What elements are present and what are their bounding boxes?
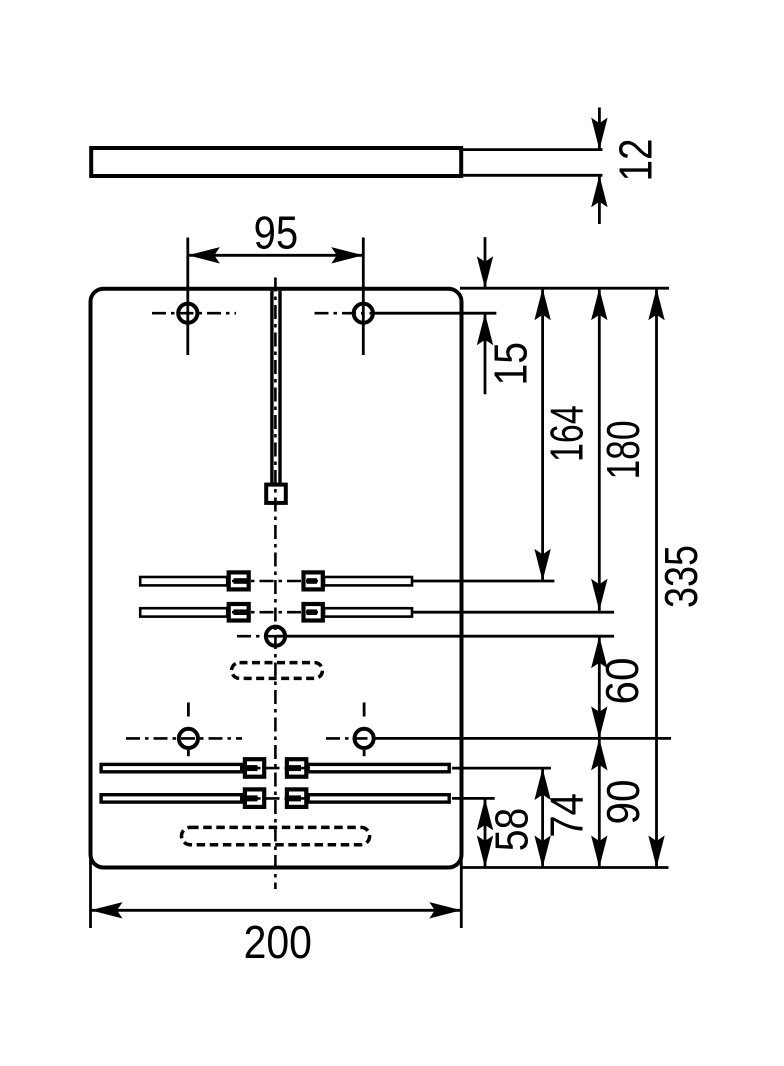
middle slot row1 centerline: [232, 580, 318, 583]
bottom slot row2 right square: [287, 789, 306, 807]
vertical keyhole slot left line: [270, 291, 273, 483]
lower hole right centerline: [326, 737, 376, 740]
side view thin profile top line: [461, 148, 603, 151]
dimension 180 top arrow: [591, 288, 607, 320]
dimension 90 top arrow: [591, 738, 607, 770]
dimension 95 right arrow: [331, 247, 363, 263]
bottom slot row2 left square: [245, 789, 264, 807]
bottom slot row1 left square inner mark: [240, 765, 258, 771]
dimension 60 line: [598, 636, 601, 738]
lower hole right top tick: [363, 703, 366, 717]
middle slot row1 right square: [304, 572, 323, 589]
dimension 335 top arrow: [648, 288, 664, 320]
middle circle centerline left: [237, 635, 276, 638]
middle slot row1 left square: [229, 572, 249, 589]
bottom slot row1 right square inner mark: [288, 765, 302, 771]
dimension 60 top arrow: [591, 636, 607, 668]
bottom slot row2 right square inner mark: [288, 795, 302, 801]
svg-text:90: 90: [599, 779, 650, 824]
bottom slot row2 left square inner mark: [240, 795, 258, 801]
dimension 200 right arrow: [429, 902, 461, 918]
dimension 58 bottom arrow: [477, 836, 493, 868]
svg-text:180: 180: [597, 420, 649, 479]
middle circle: [266, 627, 285, 646]
lower hole left bottom tick: [187, 750, 190, 756]
middle slot row1 right bar: [324, 577, 412, 585]
dimension 335 line: [655, 288, 658, 867]
top edge extension line: [460, 287, 669, 290]
svg-text:58: 58: [487, 808, 539, 851]
keyhole slot bottom square: [266, 485, 286, 503]
dimension 200 line: [91, 909, 462, 912]
lower hole left: [179, 729, 198, 748]
bottom slot row1 left bar: [101, 764, 243, 771]
dimension 74 line: [541, 768, 544, 867]
dimension 74 bottom arrow: [534, 836, 550, 868]
lower hole left centerline: [126, 737, 242, 740]
vertical centerline of plate: [274, 278, 277, 890]
dimension 15 lower arrow: [477, 313, 493, 345]
upper hole left vertical extension line: [186, 238, 189, 356]
bottom slot row2 extension line: [452, 797, 495, 800]
dimension 12 upper arrow: [591, 118, 607, 150]
middle circle extension line: [276, 635, 614, 638]
bottom slot row1 extension line: [452, 767, 551, 770]
dimension 335 bottom arrow: [648, 836, 664, 868]
lower dashed obround: [182, 827, 370, 844]
upper holes centerline extension to dim 15: [375, 312, 496, 315]
dimension 58 top arrow: [477, 798, 493, 830]
bottom slot row2 centerline: [238, 797, 306, 800]
lower hole right: [355, 729, 374, 748]
dimension 15 upper arrow: [477, 256, 493, 288]
middle slot row2 right square: [304, 604, 323, 621]
middle slot row1 left bar: [140, 577, 227, 585]
bottom edge extension line: [462, 866, 669, 869]
middle slot row2 extension line: [412, 611, 614, 614]
middle slot row2 left square: [229, 604, 249, 621]
dimension 164 bottom arrow: [534, 549, 550, 581]
dimension 180 bottom arrow: [591, 579, 607, 611]
svg-text:15: 15: [486, 342, 538, 385]
dimension 90 line: [598, 738, 601, 867]
dimension 95 left arrow: [188, 247, 220, 263]
side view thin profile bottom line: [461, 174, 603, 177]
middle slot row1 left square inner mark: [234, 578, 248, 584]
svg-text:164: 164: [540, 405, 592, 462]
lower hole right bottom tick: [363, 750, 366, 756]
svg-text:12: 12: [610, 139, 661, 182]
lower holes centerline extension: [376, 737, 671, 740]
svg-text:74: 74: [542, 793, 593, 838]
middle slot row1 extension line: [412, 580, 554, 583]
svg-text:200: 200: [244, 918, 312, 969]
dimension 90 bottom arrow: [591, 836, 607, 868]
bottom slot row1 centerline: [238, 767, 306, 770]
dimension 12 upper line: [598, 108, 601, 150]
dimension 12 lower arrow: [591, 175, 607, 207]
bottom slot row1 left square: [245, 759, 264, 777]
dimension 200 left arrow: [91, 902, 123, 918]
dimension 200 left extension line: [89, 852, 92, 928]
bottom slot row1 right bar: [308, 764, 449, 771]
dimension 74 top arrow: [534, 768, 550, 800]
dimension 200 right extension line: [460, 852, 463, 928]
bottom slot row2 right bar: [308, 795, 449, 802]
svg-text:95: 95: [254, 208, 299, 259]
upper dashed obround: [232, 663, 323, 679]
plate outline: [91, 289, 462, 868]
middle slot row2 right bar: [324, 608, 412, 616]
svg-text:60: 60: [597, 657, 648, 704]
dimension 12 lower line: [598, 175, 601, 224]
side view plate body: [91, 148, 461, 176]
dimension 164 top arrow: [534, 288, 550, 320]
upper hole left: [178, 304, 197, 323]
dimension 180 line: [598, 288, 601, 611]
bottom slot row1 right square: [287, 759, 306, 777]
middle slot row2 left bar: [140, 608, 227, 616]
dimension 60 bottom arrow: [591, 706, 607, 738]
dimension 164 line: [541, 288, 544, 581]
middle slot row1 right square inner mark: [307, 578, 318, 584]
middle slot row2 centerline: [232, 611, 318, 614]
dimension 95 line: [188, 254, 363, 257]
dimension 15 upper line: [484, 237, 487, 288]
lower hole left top tick: [187, 703, 190, 717]
upper hole left centerline: [152, 312, 236, 315]
upper hole right centerline: [315, 312, 376, 315]
svg-text:335: 335: [655, 545, 706, 608]
bottom slot row2 left bar: [101, 795, 243, 802]
upper hole right: [354, 304, 373, 323]
middle slot row2 left square inner mark: [234, 609, 248, 615]
vertical keyhole slot right line: [278, 291, 281, 483]
middle slot row2 right square inner mark: [307, 609, 318, 615]
dimension 58 line: [484, 798, 487, 867]
upper hole right vertical extension line: [362, 238, 365, 356]
dimension 15 lower line: [484, 313, 487, 394]
